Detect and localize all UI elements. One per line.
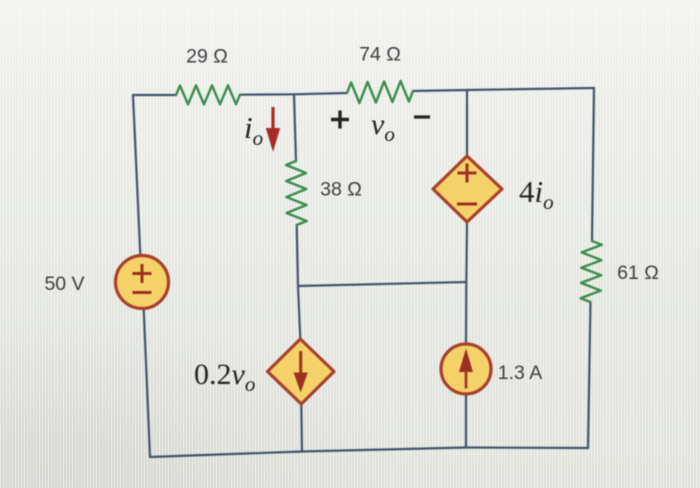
wire top segment (node A to 74Ω) xyxy=(294,93,347,94)
wire top-right segment (node B to TR corner) xyxy=(467,88,594,90)
wire middle branch (node A to 38Ω) xyxy=(294,94,296,161)
resistor 29Ω xyxy=(176,85,240,104)
label + (v0 polarity plus) xyxy=(331,111,349,129)
wire middle horizontal (node C to node D) xyxy=(298,282,466,286)
resistor 38Ω xyxy=(286,161,307,225)
wire left segment (TL corner to 50V source) xyxy=(133,95,140,255)
wire left segment (50V source to BL corner) xyxy=(144,309,150,457)
wire inner branch (4i0 source to node D) xyxy=(465,222,468,282)
label v0 (voltage name) xyxy=(371,108,395,146)
wire bottom segment (node E to node F) xyxy=(302,448,466,452)
svg-text:io: io xyxy=(244,110,263,150)
wire right segment (61Ω to BR corner) xyxy=(588,302,591,448)
label 0.2v0 (controlling value) xyxy=(194,358,255,396)
svg-text:38 Ω: 38 Ω xyxy=(320,179,362,201)
label 38 Ω xyxy=(320,179,362,201)
wire inner branch (node B to 4i0 source) xyxy=(466,90,468,156)
wire top-left segment (TL corner to 29Ω) xyxy=(133,94,176,96)
svg-text:29 Ω: 29 Ω xyxy=(186,46,228,68)
wire right segment (TR corner to 61Ω) xyxy=(592,88,594,241)
label 74 Ω xyxy=(359,44,401,66)
label 50 V xyxy=(44,273,84,295)
current arrow i0 (red, pointing down) xyxy=(266,107,280,152)
wire middle branch (node C to 0.2v0 source) xyxy=(298,286,300,339)
svg-text:50 V: 50 V xyxy=(44,273,84,295)
label − (v0 polarity minus) xyxy=(414,115,430,118)
wire top segment (29Ω to node A) xyxy=(240,93,294,96)
label i0 (current name) xyxy=(244,110,263,150)
wire inner branch (1.3A source to node F) xyxy=(465,394,467,448)
wire bottom segment (node F to BR corner) xyxy=(466,446,588,449)
resistor 74Ω xyxy=(347,81,413,103)
dependent current source 0.2v0 (diamond with down arrow) xyxy=(268,339,335,404)
wire inner branch (node D to 1.3A source) xyxy=(465,282,467,344)
wire top segment (74Ω to node B) xyxy=(413,90,467,91)
label 61 Ω xyxy=(617,262,659,284)
svg-text:61 Ω: 61 Ω xyxy=(617,262,659,284)
svg-text:4io: 4io xyxy=(519,174,554,214)
svg-text:1.3 A: 1.3 A xyxy=(498,362,542,384)
label 4i0 (controlled value) xyxy=(519,174,554,214)
label 29 Ω xyxy=(186,46,228,68)
wire middle branch (38Ω to node C) xyxy=(297,225,298,286)
label 1.3 A xyxy=(498,362,542,384)
resistor 61Ω xyxy=(581,241,602,302)
dependent voltage source 4i0 (diamond) xyxy=(433,156,502,222)
wire middle branch (0.2v0 source to node E) xyxy=(300,404,303,452)
wire bottom segment (BL corner to node E) xyxy=(150,452,302,458)
svg-text:0.2vo: 0.2vo xyxy=(194,358,255,396)
voltage source 50V (independent, circle) xyxy=(116,256,169,309)
svg-text:vo: vo xyxy=(371,108,395,146)
current source 1.3A (circle with up arrow) xyxy=(441,344,491,394)
svg-text:74 Ω: 74 Ω xyxy=(359,44,401,66)
